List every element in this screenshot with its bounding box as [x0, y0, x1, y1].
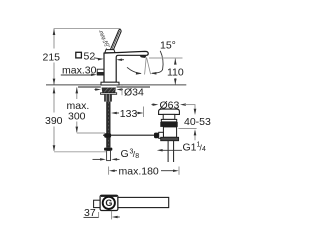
mounting nut hatched [102, 88, 116, 93]
aerator dark wedge at spout tip [140, 56, 147, 58]
waste collar [161, 119, 176, 122]
15 deg angle arc with arrowhead [152, 51, 163, 74]
square52 second arrowhead at body right edge [119, 59, 125, 61]
37 left extension tick [98, 212, 100, 218]
svg-text:15°: 15° [160, 39, 176, 51]
lever handle raised [109, 29, 121, 52]
G3/8 left arrow [93, 158, 102, 160]
top extension line (max handle height) [54, 28, 121, 30]
aerator 15 deg axis line [147, 58, 151, 75]
max.300 bottom arrowhead [76, 127, 79, 133]
max.300 top arrowhead [76, 87, 79, 93]
390 bottom extension line [54, 151, 106, 153]
spout tip extension line [143, 107, 145, 118]
37 right extension line [111, 211, 113, 220]
knob dark band [97, 72, 103, 75]
threaded shank [104, 94, 112, 101]
hose ferrule G3/8 tip [107, 151, 111, 161]
waste bottom collar [161, 137, 179, 140]
GROHE badge ring [103, 197, 115, 209]
max.180 right line and arrowhead [161, 170, 174, 172]
base plinth [101, 82, 119, 85]
svg-text:G1: G1 [183, 142, 197, 154]
svg-text:max.60°: max.60° [98, 30, 111, 49]
supply hose [106, 102, 110, 148]
small left angle arc with arrowhead [127, 67, 141, 73]
svg-text:4: 4 [202, 146, 206, 153]
lever top view: arm [118, 197, 169, 207]
Ø63 line right segment [180, 103, 186, 106]
dimension 40-53 bottom arrow [194, 131, 196, 140]
max.30 underline leader [61, 74, 93, 76]
max.300 bottom extension line [77, 132, 105, 134]
G3/8 right arrow [115, 158, 120, 160]
dimension max.300 vertical [76, 87, 78, 99]
label square52 glyph [76, 52, 82, 58]
deck top line [46, 84, 101, 86]
washer [101, 93, 117, 95]
215 bottom arrowhead [53, 79, 56, 85]
215 top arrowhead [53, 29, 56, 35]
37 underline leader [84, 216, 99, 218]
pop-up rod horizontal [103, 134, 155, 136]
lever top view: head [100, 195, 118, 210]
lever inner edge line [111, 31, 120, 53]
waste tailpipe [168, 141, 174, 162]
dimension 133 left arrow [113, 112, 119, 114]
waste body [163, 127, 176, 137]
lever top view: left tab [94, 200, 101, 207]
svg-text:133: 133 [120, 108, 138, 120]
dimension Ø63 line with left arrowhead [152, 104, 155, 106]
svg-text:max.180: max.180 [119, 166, 159, 178]
390 top arrowhead [53, 87, 56, 93]
G1 1/4 leader line with left arrowhead [160, 149, 182, 151]
Ø34 right arrowhead [120, 89, 123, 91]
svg-text:110: 110 [167, 67, 184, 79]
svg-text:40-53: 40-53 [184, 116, 211, 128]
dimension 110 vertical [174, 58, 176, 64]
390 bottom arrowhead [53, 145, 56, 151]
head top dark edge [101, 195, 117, 197]
leader line of square52 with right arrowhead at faucet body [94, 57, 98, 60]
40-53 bottom extension line [178, 128, 196, 130]
svg-text:215: 215 [43, 51, 61, 63]
svg-text:52: 52 [84, 50, 96, 62]
Ø34 extension tick [121, 86, 123, 95]
max.180 left arrowhead [109, 169, 115, 172]
waste neck [163, 114, 175, 119]
110 top arrowhead [174, 58, 177, 64]
max.180 right tick [178, 167, 180, 175]
max.30 arrowhead pointing right at pull-rod knob [91, 73, 97, 76]
svg-text:G: G [121, 148, 129, 160]
waste o-ring dark band [160, 122, 177, 127]
37 right arrowhead [114, 216, 120, 218]
handle pivot dome [105, 50, 115, 53]
waste lever housing [159, 132, 164, 138]
hose end nut [104, 148, 112, 151]
dimension 215 vertical line [53, 29, 55, 49]
svg-text:Ø63: Ø63 [160, 99, 180, 111]
110 top extension line at spout outlet level [149, 57, 183, 59]
deck bottom line [78, 86, 101, 88]
aerator vertical reference line [145, 58, 147, 75]
110 bottom arrowhead [174, 79, 177, 85]
handle travel dashed arc [100, 31, 109, 52]
svg-text:G: G [105, 198, 112, 208]
waste flange [159, 109, 180, 114]
pull-rod knob on body left [97, 69, 104, 75]
svg-text:Ø34: Ø34 [124, 86, 144, 98]
waste rod clevis dark [154, 133, 159, 139]
dimension 40-53 top arrow [194, 105, 196, 110]
svg-text:8: 8 [135, 153, 139, 160]
rod clevis dark blob [104, 133, 111, 138]
dimension max.180 left tick [108, 167, 110, 175]
dimension 390 vertical [53, 87, 55, 112]
Ø34 left arrowhead [95, 89, 98, 91]
svg-text:390: 390 [45, 115, 63, 127]
dimension 133 right arrow [137, 112, 142, 114]
svg-text:300: 300 [68, 111, 86, 123]
faucet body and spout [104, 51, 148, 82]
